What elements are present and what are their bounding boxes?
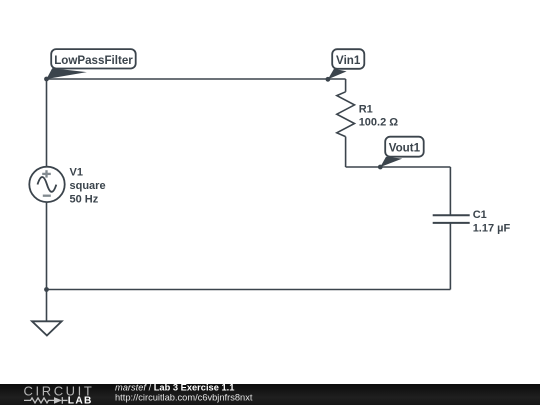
wire capacitor bottom lead xyxy=(449,223,451,290)
svg-text:1.17 µF: 1.17 µF xyxy=(473,223,511,235)
svg-text:V1: V1 xyxy=(70,167,83,179)
resistor R1 zigzag xyxy=(337,92,355,137)
wire left vertical (V1 top lead) xyxy=(46,79,48,167)
voltage source V1 plus terminal mark xyxy=(42,170,51,177)
capacitor C1 plates xyxy=(433,215,470,223)
wire Vout horizontal xyxy=(346,166,451,168)
node Vout1 (junction dot) xyxy=(378,165,383,170)
svg-text:100.2 Ω: 100.2 Ω xyxy=(359,117,399,129)
svg-text:Vin1: Vin1 xyxy=(336,54,361,67)
footer url line xyxy=(115,393,253,403)
voltage source V1 minus terminal mark xyxy=(43,195,51,197)
svg-text:50 Hz: 50 Hz xyxy=(70,193,99,205)
svg-text:square: square xyxy=(70,180,106,192)
node LowPassFilter (junction dot) xyxy=(44,77,49,82)
footer CircuitLab logo CIRCUIT text xyxy=(24,383,95,398)
ground symbol xyxy=(32,290,62,336)
voltage source V1 value labels xyxy=(70,167,106,206)
voltage source V1 sine symbol xyxy=(38,177,57,192)
svg-text:R1: R1 xyxy=(359,103,373,115)
svg-text:marstef / Lab 3 Exercise 1.1: marstef / Lab 3 Exercise 1.1 xyxy=(115,382,234,392)
net label LowPassFilter flag xyxy=(47,49,136,79)
node ground junction dot xyxy=(44,287,49,292)
wire V1 bottom lead to ground net xyxy=(46,202,48,290)
wire net Vin top horizontal xyxy=(47,78,346,80)
svg-text:C1: C1 xyxy=(473,209,487,221)
svg-text:LowPassFilter: LowPassFilter xyxy=(54,54,133,67)
footer CircuitLab logo LAB text xyxy=(68,395,93,405)
node Vin1 (junction dot) xyxy=(326,77,331,82)
wire resistor bottom stub to Vout net xyxy=(345,137,347,167)
resistor R1 value labels xyxy=(359,103,399,128)
wire resistor top stub xyxy=(345,79,347,92)
voltage source V1 circle xyxy=(29,167,64,202)
wire bottom horizontal ground net xyxy=(47,289,451,291)
svg-text:http://circuitlab.com/c6vbjnfr: http://circuitlab.com/c6vbjnfrs8nxt xyxy=(115,393,253,403)
svg-text:Vout1: Vout1 xyxy=(389,142,421,155)
footer bar background xyxy=(0,384,540,405)
net label Vin1 flag xyxy=(328,49,364,79)
footer CircuitLab logo schematic squiggle (resistor and diode) xyxy=(24,397,68,404)
wire capacitor top lead xyxy=(449,167,451,215)
capacitor C1 value labels xyxy=(473,209,511,235)
svg-text:LAB: LAB xyxy=(68,395,93,405)
footer title line: marstef / Lab 3 Exercise 1.1 xyxy=(115,382,234,392)
net label Vout1 flag xyxy=(380,137,423,167)
